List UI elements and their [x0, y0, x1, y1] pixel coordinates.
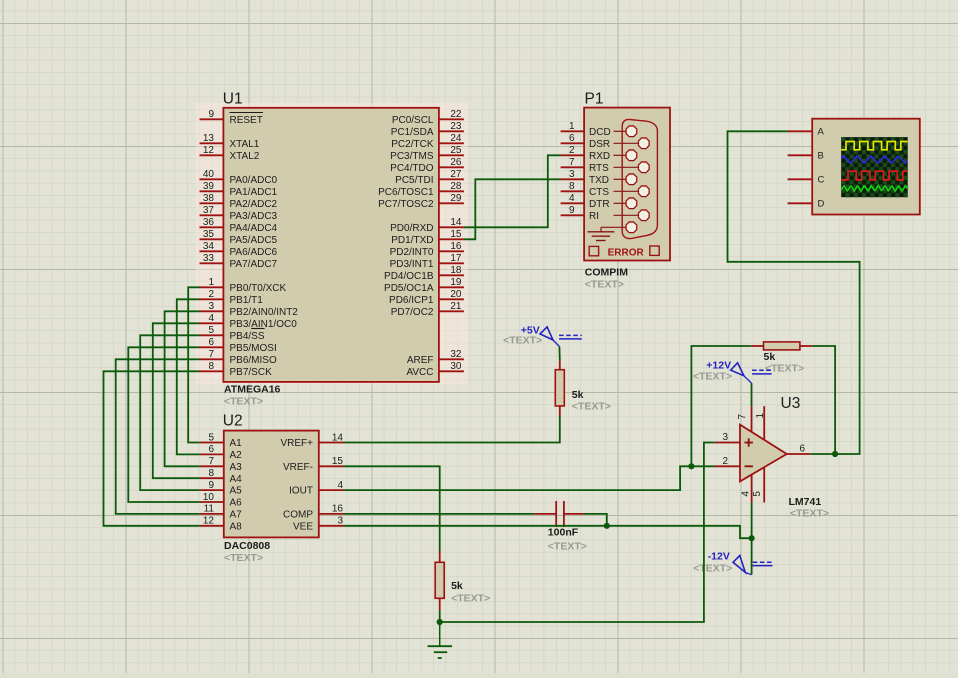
- +5V label: [521, 325, 540, 337]
- wire ground node to U3 pin3: [440, 443, 715, 623]
- svg-text:ERROR: ERROR: [608, 247, 645, 258]
- P1 value label COMPIM: [585, 267, 628, 279]
- svg-text:40: 40: [203, 169, 215, 180]
- svg-text:PC7/TOSC2: PC7/TOSC2: [378, 199, 434, 210]
- svg-text:17: 17: [450, 253, 462, 264]
- P1 pin 5 (GND octagon): [601, 222, 637, 233]
- svg-text:9: 9: [208, 480, 214, 491]
- wire R3 to ground node: [439, 610, 441, 622]
- P1 pin 4 (DTR): [561, 193, 637, 210]
- svg-text:5k: 5k: [764, 351, 776, 363]
- svg-text:VREF-: VREF-: [283, 462, 313, 473]
- svg-text:PD5/OC1A: PD5/OC1A: [384, 283, 434, 294]
- svg-text:PB6/MISO: PB6/MISO: [230, 355, 277, 366]
- oscilloscope channel D pin: [788, 199, 825, 210]
- U3 pin 1 (offset null): [755, 406, 766, 440]
- U1 pin 13 (XTAL1): [200, 133, 260, 150]
- U1 pin 1 (PB0/T0/XCK): [200, 277, 287, 294]
- U1 pin 26 (PC4/TDO): [390, 157, 464, 174]
- svg-text:25: 25: [450, 145, 462, 156]
- svg-text:14: 14: [332, 432, 344, 443]
- U3 pin 4 (V-): [740, 475, 751, 503]
- svg-text:16: 16: [332, 504, 344, 515]
- U3 pin 7 (V+): [737, 406, 752, 432]
- P1 pin 1 (DCD): [561, 121, 637, 138]
- U3 pin 2 (inverting input): [715, 456, 740, 467]
- svg-text:28: 28: [450, 181, 462, 192]
- svg-text:6: 6: [569, 133, 575, 144]
- U1 pin 30 (AVCC): [406, 361, 463, 378]
- resistor R2 5k (op-amp feedback): [751, 342, 812, 350]
- svg-text:<TEXT>: <TEXT>: [224, 396, 263, 408]
- svg-text:PD1/TXD: PD1/TXD: [391, 235, 433, 246]
- svg-text:PC2/TCK: PC2/TCK: [391, 139, 434, 150]
- svg-text:<TEXT>: <TEXT>: [548, 541, 587, 553]
- P1 ground symbol: [587, 227, 614, 240]
- svg-text:8: 8: [208, 468, 214, 479]
- wire U1 PB0 to U2 A1: [188, 287, 200, 442]
- P1 pin 9 (RI): [561, 205, 650, 222]
- svg-text:A6: A6: [230, 498, 243, 509]
- svg-text:A5: A5: [230, 486, 243, 497]
- oscilloscope channel C pin: [788, 175, 825, 186]
- U2 pin 11 (A7): [200, 504, 242, 521]
- svg-text:P1: P1: [585, 91, 604, 108]
- svg-text:PA3/ADC3: PA3/ADC3: [230, 211, 278, 222]
- svg-text:4: 4: [740, 491, 751, 497]
- svg-text:-12V: -12V: [708, 551, 730, 563]
- U1 pin 14 (PD0/RXD): [390, 217, 464, 234]
- junction C1/VEE: [604, 523, 610, 529]
- U3 pin 6 (output): [787, 444, 811, 455]
- wire C1 to VEE net: [584, 514, 607, 526]
- U1 pin 12 (XTAL2): [200, 145, 260, 162]
- svg-text:PB7/SCK: PB7/SCK: [230, 367, 273, 378]
- svg-text:PD0/RXD: PD0/RXD: [390, 223, 433, 234]
- wire U1 PB5 to U2 A6: [128, 347, 200, 502]
- svg-text:PA5/ADC5: PA5/ADC5: [230, 235, 278, 246]
- svg-text:100nF: 100nF: [548, 527, 579, 539]
- svg-text:39: 39: [203, 181, 215, 192]
- U3 reference label: [781, 395, 801, 412]
- P1 property label <TEXT>: [585, 279, 624, 291]
- U1 pin 39 (PA1/ADC1): [200, 181, 278, 198]
- svg-text:2: 2: [569, 145, 575, 156]
- U1 pin 6 (PB5/MOSI): [200, 337, 277, 354]
- svg-text:RESET: RESET: [230, 115, 263, 126]
- U2 pin 8 (A4): [200, 468, 242, 485]
- U1 pin 5 (PB4/SS): [200, 325, 265, 342]
- wire U1 PB1 to U2 A2: [177, 299, 200, 454]
- svg-text:PB2/AIN0/INT2: PB2/AIN0/INT2: [230, 307, 299, 318]
- svg-text:16: 16: [450, 241, 462, 252]
- wire R2 right to output node: [812, 346, 835, 454]
- svg-text:PC3/TMS: PC3/TMS: [390, 151, 434, 162]
- svg-text:<TEXT>: <TEXT>: [451, 593, 490, 605]
- svg-text:18: 18: [450, 265, 462, 276]
- svg-text:37: 37: [203, 205, 215, 216]
- +12V label: [706, 359, 731, 371]
- svg-text:27: 27: [450, 169, 462, 180]
- U3 non-inverting input mark (+): [745, 438, 753, 446]
- svg-text:15: 15: [332, 456, 344, 467]
- R1 value label 5k: [572, 389, 584, 401]
- svg-text:PC1/SDA: PC1/SDA: [391, 127, 434, 138]
- svg-text:3: 3: [722, 432, 728, 443]
- U1 pin 29 (PC7/TOSC2): [378, 193, 464, 210]
- U2 property label <TEXT>: [224, 552, 263, 564]
- svg-text:<TEXT>: <TEXT>: [503, 335, 542, 347]
- svg-text:PD6/ICP1: PD6/ICP1: [389, 295, 434, 306]
- op-amp U3 LM741 triangle: [740, 425, 787, 482]
- U3 inverting input mark (-): [745, 465, 753, 467]
- power terminal +12V: [731, 363, 772, 383]
- junction -12V/VEE/pin4: [749, 535, 755, 541]
- U1 pin 24 (PC2/TCK): [391, 133, 464, 150]
- U1 pin 18 (PD4/OC1B): [384, 265, 464, 282]
- svg-text:PA0/ADC0: PA0/ADC0: [230, 175, 278, 186]
- svg-text:PA1/ADC1: PA1/ADC1: [230, 187, 278, 198]
- U1 pin 37 (PA3/ADC3): [200, 205, 278, 222]
- svg-text:3: 3: [208, 301, 214, 312]
- svg-text:PD4/OC1B: PD4/OC1B: [384, 271, 434, 282]
- P1 pin 6 (DSR): [561, 133, 650, 150]
- svg-text:7: 7: [737, 414, 748, 420]
- junction feedback/inverting input: [688, 463, 694, 469]
- svg-text:PB0/T0/XCK: PB0/T0/XCK: [230, 283, 287, 294]
- -12V label: [708, 551, 730, 563]
- U2 pin 16 (COMP): [283, 504, 344, 521]
- svg-text:23: 23: [450, 121, 462, 132]
- svg-text:3: 3: [337, 516, 343, 527]
- svg-text:15: 15: [450, 229, 462, 240]
- U1 pin 7 (PB6/MISO): [200, 349, 277, 366]
- U2 pin 3 (VEE): [293, 516, 344, 533]
- svg-text:3: 3: [569, 169, 575, 180]
- U1 pin 28 (PC6/TOSC1): [378, 181, 464, 198]
- svg-text:4: 4: [208, 313, 214, 324]
- svg-text:U1: U1: [223, 91, 243, 108]
- svg-text:1: 1: [755, 413, 766, 419]
- svg-text:AVCC: AVCC: [406, 367, 433, 378]
- U1 pin 34 (PA6/ADC6): [200, 241, 278, 258]
- svg-text:5: 5: [752, 491, 763, 497]
- R2 value label 5k: [764, 351, 776, 363]
- svg-text:PA6/ADC6: PA6/ADC6: [230, 247, 278, 258]
- svg-text:PA2/ADC2: PA2/ADC2: [230, 199, 278, 210]
- wire U1 PB6 to U2 A7: [116, 359, 200, 514]
- power terminal -12V: [733, 556, 774, 575]
- svg-text:<TEXT>: <TEXT>: [790, 508, 829, 520]
- svg-text:B: B: [818, 151, 824, 162]
- U3 property label <TEXT>: [790, 508, 829, 520]
- wire U1 PB3 to U2 A4: [153, 323, 200, 478]
- svg-text:C: C: [818, 175, 825, 186]
- svg-text:5k: 5k: [451, 580, 463, 592]
- DAC U2 DAC0808 body: [224, 431, 319, 538]
- oscilloscope body: [812, 119, 920, 215]
- svg-text:<TEXT>: <TEXT>: [765, 363, 804, 375]
- svg-text:PD3/INT1: PD3/INT1: [390, 259, 434, 270]
- oscilloscope trace channel D (green wave): [841, 185, 907, 191]
- P1 reference label: [585, 91, 604, 108]
- svg-text:A4: A4: [230, 474, 243, 485]
- svg-text:<TEXT>: <TEXT>: [572, 401, 611, 413]
- U1 pin 36 (PA4/ADC4): [200, 217, 278, 234]
- svg-text:5k: 5k: [572, 389, 584, 401]
- U2 pin 12 (A8): [200, 516, 242, 533]
- svg-text:12: 12: [203, 516, 215, 527]
- P1 pin 2 (RXD): [561, 145, 637, 162]
- wire U3 output to oscilloscope A: [728, 131, 860, 454]
- svg-text:LM741: LM741: [789, 496, 822, 508]
- svg-text:VEE: VEE: [293, 521, 313, 532]
- U1 pin 27 (PC5/TDI): [395, 169, 464, 186]
- U1 pin 16 (PD2/INT0): [390, 241, 464, 258]
- R1 property label <TEXT>: [572, 401, 611, 413]
- junction ground node: [437, 619, 443, 625]
- svg-text:13: 13: [203, 133, 215, 144]
- svg-text:DAC0808: DAC0808: [224, 540, 270, 552]
- P1 pin 7 (RTS): [561, 157, 650, 174]
- svg-text:CTS: CTS: [589, 187, 609, 198]
- wire +5V to R1: [558, 347, 560, 361]
- svg-text:8: 8: [569, 181, 575, 192]
- svg-text:21: 21: [450, 301, 462, 312]
- svg-text:A7: A7: [230, 510, 243, 521]
- svg-text:A8: A8: [230, 521, 243, 532]
- C1 value label 100nF: [548, 527, 579, 539]
- P1 DB9 connector outline: [622, 119, 657, 238]
- svg-text:10: 10: [203, 492, 215, 503]
- U1 property label <TEXT>: [224, 396, 263, 408]
- U1 pin 22 (PC0/SCL): [392, 109, 464, 126]
- U1 pin 4 (PB3/AIN1/OC0): [200, 313, 298, 330]
- svg-text:8: 8: [208, 361, 214, 372]
- U1 pin 40 (PA0/ADC0): [200, 169, 278, 186]
- U1 value label ATMEGA16: [224, 384, 281, 396]
- U1 pin 15 (PD1/TXD): [391, 229, 464, 246]
- svg-text:PB1/T1: PB1/T1: [230, 295, 264, 306]
- svg-text:22: 22: [450, 109, 462, 120]
- U1 pin 2 (PB1/T1): [200, 289, 264, 306]
- U1 pin 19 (PD5/OC1A): [384, 277, 464, 294]
- svg-text:38: 38: [203, 193, 215, 204]
- wire U2 VEE to -12V node: [344, 526, 752, 538]
- svg-text:24: 24: [450, 133, 462, 144]
- U3 pin 3 (non-inverting input): [715, 432, 740, 443]
- svg-text:PC6/TOSC1: PC6/TOSC1: [378, 187, 434, 198]
- U2 pin 6 (A2): [200, 444, 242, 461]
- U1 pin 9 (RESET): [200, 109, 264, 126]
- svg-text:A: A: [818, 127, 825, 138]
- U2 pin 7 (A3): [200, 456, 242, 473]
- oscilloscope channel B pin: [788, 151, 824, 162]
- U2 pin 5 (A1): [200, 432, 242, 449]
- svg-text:20: 20: [450, 289, 462, 300]
- svg-text:<TEXT>: <TEXT>: [693, 371, 732, 383]
- svg-text:XTAL1: XTAL1: [230, 139, 260, 150]
- svg-text:5: 5: [208, 432, 214, 443]
- svg-text:A3: A3: [230, 462, 243, 473]
- U2 reference label: [223, 413, 243, 430]
- +12V property label <TEXT>: [693, 371, 732, 383]
- svg-text:1: 1: [569, 121, 575, 132]
- svg-text:TXD: TXD: [589, 175, 609, 186]
- oscilloscope screen: [841, 137, 908, 197]
- U1 pin 35 (PA5/ADC5): [200, 229, 278, 246]
- wire U2 VREF+ to R1: [344, 416, 560, 443]
- svg-text:A1: A1: [230, 438, 243, 449]
- svg-text:ATMEGA16: ATMEGA16: [224, 384, 281, 396]
- U2 pin 14 (VREF+): [280, 432, 343, 449]
- svg-text:COMP: COMP: [283, 510, 313, 521]
- P1 pin 8 (CTS): [561, 181, 650, 198]
- wire U1 PB4 to U2 A5: [140, 335, 200, 490]
- svg-text:DCD: DCD: [589, 127, 611, 138]
- svg-text:35: 35: [203, 229, 215, 240]
- wire U1 PD1/TXD to P1 TXD: [464, 179, 561, 239]
- svg-text:4: 4: [337, 480, 343, 491]
- U3 pin 5 (offset null): [752, 468, 764, 503]
- svg-text:PA4/ADC4: PA4/ADC4: [230, 223, 278, 234]
- svg-text:RXD: RXD: [589, 151, 610, 162]
- svg-text:32: 32: [450, 349, 462, 360]
- resistor R3 5k (VREF- to ground): [435, 552, 444, 611]
- wire U1 PB7 to U2 A8: [104, 371, 200, 526]
- U3 value label LM741: [789, 496, 822, 508]
- U1 reference label: [223, 91, 243, 108]
- svg-text:36: 36: [203, 217, 215, 228]
- svg-text:7: 7: [208, 349, 214, 360]
- svg-text:9: 9: [208, 109, 214, 120]
- svg-text:6: 6: [208, 337, 214, 348]
- svg-text:26: 26: [450, 157, 462, 168]
- svg-text:<TEXT>: <TEXT>: [585, 279, 624, 291]
- U1 pin 33 (PA7/ADC7): [200, 253, 278, 270]
- U2 pin 9 (A5): [200, 480, 242, 497]
- U1 pin 21 (PD7/OC2): [391, 301, 464, 318]
- svg-text:U2: U2: [223, 413, 243, 430]
- R2 property label <TEXT>: [765, 363, 804, 375]
- U1 pin 32 (AREF): [407, 349, 464, 366]
- wire U2 VREF- to R3: [344, 466, 440, 551]
- U1 pin 23 (PC1/SDA): [391, 121, 464, 138]
- U1 pin 20 (PD6/ICP1): [389, 289, 464, 306]
- U2 pin 10 (A6): [200, 492, 242, 509]
- wire +12V terminal to U3 pin7: [751, 383, 753, 406]
- svg-text:A2: A2: [230, 450, 243, 461]
- svg-text:IOUT: IOUT: [289, 486, 313, 497]
- svg-text:30: 30: [450, 361, 462, 372]
- svg-text:29: 29: [450, 193, 462, 204]
- connector P1 COMPIM body: [584, 108, 670, 261]
- svg-text:AREF: AREF: [407, 355, 434, 366]
- wire U2 COMP to C1: [344, 513, 535, 515]
- U2 pin 15 (VREF-): [283, 456, 344, 473]
- svg-text:PD2/INT0: PD2/INT0: [390, 247, 434, 258]
- svg-text:DTR: DTR: [589, 199, 610, 210]
- oscilloscope trace channel B (blue wave): [841, 156, 907, 163]
- svg-text:RTS: RTS: [589, 163, 609, 174]
- U1 pin 38 (PA2/ADC2): [200, 193, 278, 210]
- wire U1 PD0/RXD to P1 RXD: [464, 155, 561, 227]
- svg-text:19: 19: [450, 277, 462, 288]
- wire U2 IOUT to U3 pin2: [344, 466, 715, 490]
- P1 pin 3 (TXD): [561, 169, 637, 186]
- R3 value label 5k: [451, 580, 463, 592]
- oscilloscope trace channel C (red square wave): [841, 171, 908, 180]
- svg-text:14: 14: [450, 217, 462, 228]
- svg-text:2: 2: [208, 289, 214, 300]
- svg-text:12: 12: [203, 145, 215, 156]
- U2 pin 4 (IOUT): [289, 480, 343, 497]
- op-amp-less chip body: microcontroller U1 ATMEGA16: [223, 108, 439, 382]
- svg-text:PC0/SCL: PC0/SCL: [392, 115, 434, 126]
- svg-text:11: 11: [204, 504, 215, 515]
- svg-text:2: 2: [722, 456, 728, 467]
- svg-text:PB4/SS: PB4/SS: [230, 331, 265, 342]
- U1 pin 3 (PB2/AIN0/INT2): [200, 301, 299, 318]
- U2 value label DAC0808: [224, 540, 270, 552]
- svg-text:5: 5: [208, 325, 214, 336]
- svg-text:9: 9: [569, 205, 575, 216]
- oscilloscope trace channel A (yellow square wave): [841, 142, 908, 150]
- svg-text:COMPIM: COMPIM: [585, 267, 628, 279]
- svg-text:34: 34: [203, 241, 215, 252]
- U1 selection highlight: [196, 103, 468, 385]
- wire U3 pin4 to -12V node: [751, 502, 753, 538]
- ground symbol (analog ground): [428, 622, 453, 658]
- P1 ERROR indicator: [589, 246, 659, 258]
- resistor R1 5k (from +5V to VREF+): [555, 361, 564, 416]
- svg-text:PD7/OC2: PD7/OC2: [391, 307, 434, 318]
- svg-text:6: 6: [208, 444, 214, 455]
- wire -12V node to terminal: [751, 538, 753, 574]
- wire feedback node to R2 left: [691, 346, 751, 466]
- U1 pin 17 (PD3/INT1): [390, 253, 464, 270]
- U1 pin 25 (PC3/TMS): [390, 145, 464, 162]
- svg-text:7: 7: [208, 456, 214, 467]
- C1 property label <TEXT>: [548, 541, 587, 553]
- capacitor C1 100nF (COMP decoupling): [534, 501, 584, 527]
- svg-text:PA7/ADC7: PA7/ADC7: [230, 259, 278, 270]
- svg-text:PB5/MOSI: PB5/MOSI: [230, 343, 277, 354]
- wire U1 PB2 to U2 A3: [165, 311, 200, 466]
- svg-text:33: 33: [203, 253, 215, 264]
- svg-text:<TEXT>: <TEXT>: [693, 563, 732, 575]
- oscilloscope channel A pin: [788, 127, 825, 138]
- svg-text:<TEXT>: <TEXT>: [224, 552, 263, 564]
- svg-text:6: 6: [800, 444, 806, 455]
- svg-text:7: 7: [569, 157, 575, 168]
- svg-text:D: D: [818, 199, 825, 210]
- svg-text:DSR: DSR: [589, 139, 610, 150]
- svg-text:RI: RI: [589, 211, 599, 222]
- svg-text:XTAL2: XTAL2: [230, 151, 260, 162]
- svg-text:1: 1: [208, 277, 214, 288]
- svg-text:PC5/TDI: PC5/TDI: [395, 175, 433, 186]
- power terminal +5V: [540, 327, 582, 347]
- svg-text:U3: U3: [781, 395, 801, 412]
- svg-text:PC4/TDO: PC4/TDO: [390, 163, 434, 174]
- -12V property label <TEXT>: [693, 563, 732, 575]
- svg-text:4: 4: [569, 193, 575, 204]
- svg-text:VREF+: VREF+: [280, 438, 313, 449]
- U1 pin 8 (PB7/SCK): [200, 361, 273, 378]
- +5V property label <TEXT>: [503, 335, 542, 347]
- R3 property label <TEXT>: [451, 593, 490, 605]
